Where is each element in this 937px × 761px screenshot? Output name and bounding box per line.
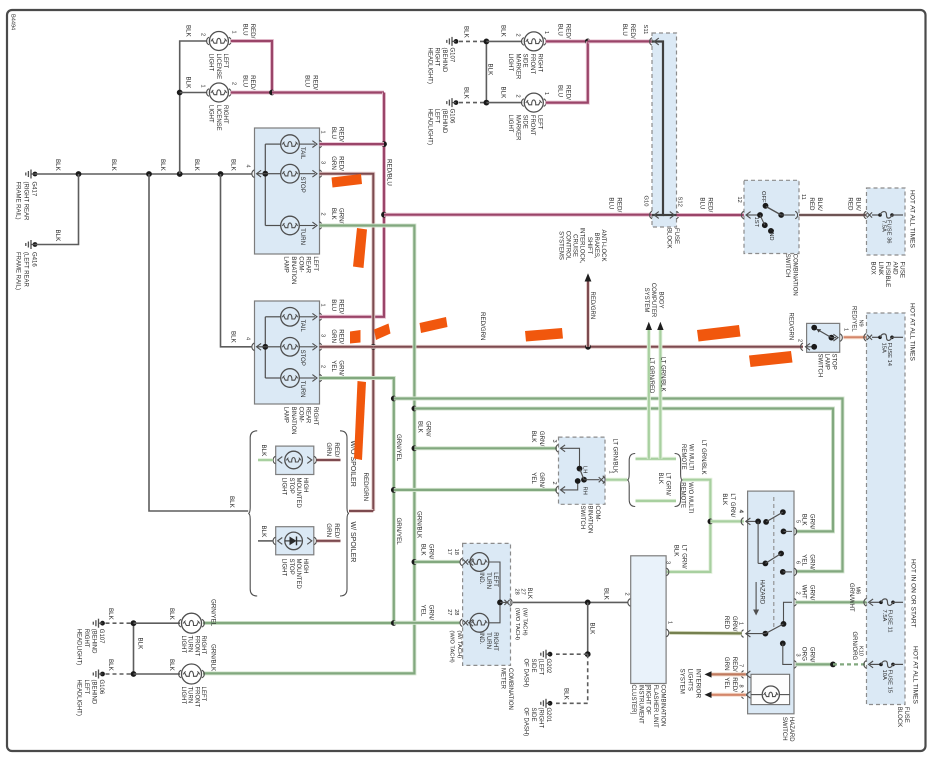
pin labels hazard left <box>738 510 744 688</box>
pin 2 connector hazard <box>794 592 801 607</box>
wire RED/GRN to interior lights <box>705 657 746 678</box>
svg-text:2: 2 <box>551 482 557 485</box>
pin 18/17 connector <box>446 549 473 566</box>
label body computer system <box>643 283 664 318</box>
label hot at all times (fuse15) <box>911 646 918 705</box>
connector pins high mount 2 <box>273 537 316 545</box>
svg-text:3: 3 <box>320 334 326 337</box>
svg-text:M6: M6 <box>855 587 861 595</box>
turn signal switch dashed box <box>559 437 606 504</box>
svg-text:BLK: BLK <box>463 26 470 39</box>
connector into fusible link box <box>864 211 872 219</box>
LED high mounted stop light <box>285 532 303 550</box>
fuse block internal bus <box>652 42 677 216</box>
svg-text:1: 1 <box>543 31 549 34</box>
turn switch contacts <box>575 466 600 495</box>
svg-text:1: 1 <box>320 131 326 134</box>
svg-text:BLK: BLK <box>185 25 192 38</box>
wire LT GRN lower alternate <box>636 499 677 503</box>
label lt grn/blk between braces <box>657 473 670 496</box>
svg-text:28: 28 <box>513 589 519 595</box>
pin 11 connector <box>795 194 806 219</box>
wire BLK meter to interior box <box>513 588 628 605</box>
svg-text:RED/GRN: RED/GRN <box>330 329 345 344</box>
svg-text:BLK: BLK <box>228 496 235 509</box>
svg-text:TAIL: TAIL <box>299 147 305 160</box>
svg-text:BLK: BLK <box>107 608 114 621</box>
pin 1 connector flasher <box>666 621 672 637</box>
svg-text:7.5A: 7.5A <box>880 220 886 232</box>
wire GRN/RED flasher to hazard <box>670 616 742 634</box>
svg-text:2: 2 <box>200 33 206 36</box>
hazard contact set A <box>755 509 792 534</box>
label turn combination switch <box>579 506 600 534</box>
svg-text:18: 18 <box>453 549 459 555</box>
high mounted stop light (w/o spoiler) box <box>276 446 314 474</box>
label left rear combination lamp <box>283 256 318 284</box>
highlight mark 7 <box>697 325 741 342</box>
connector into fuse 15 <box>864 661 873 669</box>
pin 28/27 connector <box>446 609 473 626</box>
combination flasher unit box <box>631 556 666 684</box>
bulb TURN (left rear) <box>265 216 317 245</box>
svg-text:2: 2 <box>624 593 630 596</box>
svg-text:2: 2 <box>515 95 521 98</box>
svg-text:HOT AT ALL TIMES: HOT AT ALL TIMES <box>908 190 915 249</box>
svg-text:RED/GRN: RED/GRN <box>788 313 794 341</box>
pin 2 connector (TURN) <box>320 208 345 229</box>
pin 1 connector (TAIL right) <box>320 299 345 320</box>
svg-text:N9: N9 <box>858 320 864 327</box>
highlight mark 8 <box>749 351 793 367</box>
svg-text:GRN/ORG: GRN/ORG <box>801 647 816 663</box>
label fuse and fusible link box <box>870 262 906 288</box>
svg-text:BLK: BLK <box>137 638 144 651</box>
node: bus junction dots <box>76 171 224 177</box>
hazard switch box <box>748 491 794 714</box>
brace } high mount alternates <box>340 431 349 596</box>
ground G107 (behind right headlight) <box>426 37 458 84</box>
svg-text:GRN/YEL: GRN/YEL <box>395 434 402 462</box>
hazard contact set B <box>758 521 792 574</box>
meter output connector <box>504 588 532 641</box>
svg-text:OFF: OFF <box>760 191 766 203</box>
label combination flasher unit <box>630 685 665 729</box>
svg-text:BLK: BLK <box>193 159 200 172</box>
pin 4 connector left rear lamp <box>245 165 266 178</box>
svg-text:11: 11 <box>800 194 806 200</box>
label high mounted stop light 2 <box>281 559 309 590</box>
wire stub left (w/o spoiler) <box>258 445 273 461</box>
pin 1 connector stop lamp switch <box>831 328 848 341</box>
wire BLK dashed to G202 <box>556 653 588 655</box>
pin 2 connector (TURN right) <box>320 360 345 382</box>
svg-text:BLK: BLK <box>54 230 61 243</box>
svg-text:RED/GRN: RED/GRN <box>362 473 369 502</box>
svg-text:(W/ TACH)(W/O TACH): (W/ TACH)(W/O TACH) <box>449 630 462 662</box>
wire RED/GRN stub (w/ spoiler) <box>317 523 341 541</box>
svg-text:GRN/BLK: GRN/BLK <box>210 644 217 672</box>
wire GRN/YEL from right rear turn <box>203 378 397 626</box>
svg-text:BLK: BLK <box>185 77 192 90</box>
svg-text:2: 2 <box>320 213 326 216</box>
pin 1 connector hazard <box>741 630 750 638</box>
svg-text:7.5A: 7.5A <box>881 610 887 622</box>
wire GRN/BLK meter stub <box>414 544 459 562</box>
wire LT GRN/BLK to hazard pin4 <box>665 440 744 572</box>
svg-text:LT GRN/BLK: LT GRN/BLK <box>612 439 618 473</box>
wire RED/BLU marker to fuse block S11 <box>588 24 652 42</box>
svg-text:RED/GRN: RED/GRN <box>325 523 340 538</box>
svg-text:LT GRN/BLK: LT GRN/BLK <box>660 357 666 391</box>
wire RED/BLU vertical main <box>320 93 393 317</box>
label hazard + arrow <box>753 580 764 616</box>
svg-text:2: 2 <box>795 592 801 595</box>
svg-text:B4494: B4494 <box>10 14 16 30</box>
svg-text:HOT IN ON OR START: HOT IN ON OR START <box>909 559 916 628</box>
wire RED/GRN long to stop lamp switch <box>373 312 803 350</box>
svg-text:ANTI-LOCKBRAKES,SHIFTINTERLOCK: ANTI-LOCKBRAKES,SHIFTINTERLOCK,CRUISECON… <box>557 227 606 263</box>
svg-text:RED/GRN: RED/GRN <box>723 657 738 672</box>
wire BLK dashed to G107 <box>459 26 486 41</box>
wire GRN/WHT to fuse 11 <box>796 583 867 612</box>
lamp: left license light <box>200 24 257 80</box>
svg-text:RED/GRN: RED/GRN <box>589 292 595 320</box>
svg-text:BLK: BLK <box>159 159 166 172</box>
wire BLK right license <box>180 92 208 94</box>
fuse block (rear) dashed box <box>652 33 677 227</box>
wire GRN/BLK to hazard pin5 <box>414 409 833 532</box>
svg-text:28: 28 <box>453 609 459 615</box>
pin 5 connector hazard <box>794 520 801 535</box>
label anti-lock brakes shift interlock cruise control systems <box>557 227 606 263</box>
svg-text:1: 1 <box>543 92 549 95</box>
wire RED/BLU license loop <box>231 41 275 95</box>
svg-text:K10: K10 <box>858 646 864 656</box>
label grn/yel pin6 <box>801 554 816 570</box>
svg-text:BLK: BLK <box>500 25 507 38</box>
label w/ spoiler <box>349 522 356 563</box>
ground G106 (behind left headlight) <box>426 98 458 145</box>
pin 3 connector (turn sw) <box>556 445 580 469</box>
high mounted stop light (w/ spoiler) box <box>276 527 314 555</box>
pin 2 connector stop lamp switch <box>788 313 818 351</box>
wire BLK to G416 <box>35 174 79 245</box>
highlight mark 9 <box>354 381 366 460</box>
wire GRN/BLK to combination switch pin3 <box>414 431 557 449</box>
wire LT GRN/RED to body computer <box>646 322 654 459</box>
wire BLK down to grounds <box>585 602 596 657</box>
label grn/blk vertical <box>416 421 432 539</box>
pin 12 connector <box>736 197 760 219</box>
svg-text:1: 1 <box>200 85 206 88</box>
stop lamp switch box <box>807 323 840 352</box>
internal bus left rear lamp <box>262 144 268 225</box>
svg-text:BLK/RED: BLK/RED <box>847 197 862 211</box>
wire LT GRN upper alternate <box>636 457 677 461</box>
wire BLK marker stubs <box>486 25 522 103</box>
lamp: right license light <box>200 75 257 131</box>
svg-text:3: 3 <box>320 161 326 164</box>
svg-text:12: 12 <box>736 197 742 203</box>
instrument panel fuse block dashed box <box>867 313 906 705</box>
bulb high mounted stop light <box>285 451 303 469</box>
svg-text:W/ SPOILER: W/ SPOILER <box>349 522 356 563</box>
brace } alternates <box>675 454 683 507</box>
svg-text:10A: 10A <box>881 670 887 680</box>
wire LT GRN from pin1 <box>606 439 627 480</box>
wire GRN/ORG to fuse 15 <box>796 632 867 668</box>
svg-text:RED/YEL: RED/YEL <box>851 306 857 332</box>
label interior lights system <box>679 669 702 699</box>
fuse & fusible link box dashed <box>867 188 906 255</box>
brace { alternates <box>627 454 635 507</box>
hazard illumination bulb <box>751 674 790 704</box>
connector S11 <box>642 25 659 46</box>
connector S12 <box>670 197 683 219</box>
hazard contact set D <box>780 641 792 665</box>
svg-text:S11: S11 <box>642 25 648 35</box>
svg-text:BLK/RED: BLK/RED <box>808 197 823 211</box>
wire BLK dashed to G106 <box>459 87 486 103</box>
wire RED/GRN brace to stop vertical <box>349 509 373 513</box>
pin 6 connector hazard <box>794 561 801 576</box>
svg-text:BLK: BLK <box>260 445 267 458</box>
ground G107 lower (behind right headlight) <box>76 619 105 665</box>
svg-text:BLK: BLK <box>107 659 114 672</box>
lamp: right front side marker light <box>507 24 572 80</box>
connector pins high mount 1 <box>273 456 316 464</box>
svg-text:BLK: BLK <box>230 159 237 172</box>
wire BLK front turn stubs <box>134 608 181 674</box>
label combination meter <box>500 668 513 710</box>
svg-text:RED/GRN: RED/GRN <box>325 442 340 457</box>
svg-text:BLK: BLK <box>54 159 61 172</box>
pin 8 connector hazard <box>741 691 750 699</box>
svg-text:1ST: 1ST <box>753 217 759 228</box>
svg-text:5: 5 <box>795 520 801 523</box>
wire RED/BLU marker loop <box>546 39 591 103</box>
svg-text:BLK: BLK <box>110 159 117 172</box>
hazard contact set C <box>746 602 792 636</box>
svg-text:TAIL: TAIL <box>299 320 305 333</box>
svg-text:RED/GRN: RED/GRN <box>330 156 345 171</box>
svg-text:LH: LH <box>582 466 588 473</box>
svg-text:G10: G10 <box>643 196 649 207</box>
svg-text:HAZARD: HAZARD <box>758 580 764 605</box>
wire RED/BLU tail stub left lamp <box>320 142 385 146</box>
wire RED/YEL to fuse 14 <box>844 306 867 337</box>
fuse 11 <box>870 599 903 633</box>
svg-text:BLK: BLK <box>589 623 596 636</box>
wire GRN/BLK from left rear turn <box>203 226 417 674</box>
wire RED/BLU to tail vertical <box>272 75 384 92</box>
brace { high mount alternates <box>248 431 257 596</box>
wire BLK/RED to fusible link box <box>799 197 867 215</box>
wire BLK dashed to G107 lower <box>106 608 134 623</box>
wire RED/YEL to interior lights <box>705 677 746 698</box>
bulb right turn indicator <box>470 613 498 651</box>
hazard internal dashed divider <box>773 497 775 628</box>
ground G202 (left side of dash) <box>523 650 553 687</box>
bulb TAIL (left rear) <box>265 135 317 160</box>
svg-text:GRN/BLK: GRN/BLK <box>416 511 423 539</box>
label w/o multi remote <box>680 482 693 514</box>
pin 7 connector hazard <box>741 671 750 679</box>
wire BLK to right rear lamp pin 4 <box>221 174 253 347</box>
bulb left turn indicator <box>470 553 498 589</box>
svg-text:RH: RH <box>582 487 588 495</box>
svg-text:GRN/YEL: GRN/YEL <box>210 599 217 627</box>
bulb TAIL (right rear) <box>265 308 317 333</box>
combination meter dashed box <box>463 543 511 665</box>
svg-text:6: 6 <box>795 561 801 564</box>
svg-text:27: 27 <box>446 609 452 615</box>
wire GRN/YEL to hazard pin6 <box>394 399 843 572</box>
svg-text:HOT AT ALL TIMES: HOT AT ALL TIMES <box>908 303 915 362</box>
pin 3 connector (STOP right) <box>320 329 345 350</box>
pin 2 connector flasher <box>624 593 631 607</box>
ground G201 (right side of dash) <box>523 699 553 736</box>
svg-text:(W/ TACH)(W/O TACH): (W/ TACH)(W/O TACH) <box>514 608 527 640</box>
svg-text:HOT AT ALL TIMES: HOT AT ALL TIMES <box>911 646 918 705</box>
lamp: left front turn light <box>179 644 217 707</box>
svg-text:2: 2 <box>515 34 521 37</box>
wire BLK markers link <box>484 39 494 106</box>
lamp assembly: right rear combination lamp box <box>255 301 320 404</box>
highlight mark 3 <box>350 330 361 344</box>
meter internal wires <box>489 562 509 623</box>
ground G106 lower (behind left headlight) <box>76 670 105 716</box>
pin 3 connector hazard <box>794 654 801 669</box>
wire BLK dashed to G201 <box>556 654 588 703</box>
highlight mark 2 <box>353 228 367 268</box>
svg-text:GRN/WHT: GRN/WHT <box>848 583 854 612</box>
highlight mark 4 <box>374 324 391 341</box>
wire RED/GRN stop stub right lamp <box>320 345 374 349</box>
wire RED/GRN stop vertical <box>320 174 377 511</box>
label w/tach w/o tach left <box>449 630 462 662</box>
svg-text:BLK: BLK <box>463 87 470 100</box>
arrow to anti-lock systems <box>585 273 595 347</box>
label hot at all times (fuse36) <box>908 190 915 249</box>
svg-text:GRN/YEL: GRN/YEL <box>395 518 402 546</box>
bulb TURN (right rear) <box>265 369 317 398</box>
wire GRN/YEL meter stub <box>394 605 460 623</box>
pin 1 connector (turn sw) <box>599 471 614 484</box>
wire BLK rear ground bus <box>35 159 252 174</box>
stop lamp switch contacts <box>811 325 834 341</box>
label fuse block (instrument panel) <box>896 707 909 727</box>
bulb STOP (left rear) <box>265 164 317 192</box>
wire BLK long drop to high-mount brace <box>149 174 248 511</box>
wire RED/GRN stub (w/o spoiler) <box>317 442 341 460</box>
svg-text:RED/GRN: RED/GRN <box>479 312 486 341</box>
svg-text:STOP: STOP <box>299 177 305 193</box>
svg-text:1: 1 <box>667 621 673 624</box>
combination switch dashed box <box>744 180 799 253</box>
label hot at all times (fuse14) <box>908 303 915 362</box>
lamp: left front side marker light <box>507 85 572 141</box>
svg-text:W/ MULTIREMOTE: W/ MULTIREMOTE <box>680 444 693 471</box>
svg-text:15A: 15A <box>881 343 887 353</box>
svg-text:17: 17 <box>446 549 452 555</box>
svg-text:LT GRN/BLK: LT GRN/BLK <box>700 440 706 474</box>
fuse 14 <box>872 334 903 367</box>
connector G10 <box>643 196 659 219</box>
svg-text:BLK: BLK <box>500 87 507 100</box>
wire RED/BLU S12 to combination switch <box>677 197 744 215</box>
bulb STOP (right rear) <box>265 338 317 366</box>
pin 2 connector (turn sw) <box>556 481 578 494</box>
svg-text:1: 1 <box>231 31 237 34</box>
svg-text:BLK: BLK <box>526 588 532 599</box>
svg-text:3: 3 <box>795 654 801 657</box>
internal bus right rear lamp <box>262 317 268 378</box>
svg-text:BLK: BLK <box>230 331 237 344</box>
wire BLK front turn link <box>131 620 144 677</box>
svg-text:GRN/ORG: GRN/ORG <box>851 632 857 661</box>
svg-text:STOP: STOP <box>299 350 305 366</box>
fuse 36 <box>872 212 903 244</box>
label w/o spoiler <box>349 441 356 487</box>
wire RED/BLU to fuse block <box>384 197 652 214</box>
label w/ multi remote <box>680 444 693 471</box>
svg-text:3: 3 <box>551 440 557 443</box>
ground G417 (right rear frame rail) <box>15 170 38 222</box>
svg-text:2: 2 <box>231 82 237 85</box>
svg-text:1: 1 <box>320 304 326 307</box>
switch contacts OFF/1ST/2ND <box>753 191 795 241</box>
svg-text:BLK: BLK <box>168 608 175 621</box>
pin 3 connector flasher <box>666 568 668 576</box>
svg-text:2ND: 2ND <box>768 229 774 241</box>
svg-text:HAZARDSWITCH: HAZARDSWITCH <box>781 717 794 742</box>
highlight mark 6 <box>525 328 563 342</box>
svg-text:GRN/WHT: GRN/WHT <box>801 585 816 601</box>
svg-text:LT GRN/RED: LT GRN/RED <box>648 358 654 394</box>
ground G416 (left rear frame rail) <box>15 240 38 290</box>
wire BLK dashed to G106 lower <box>106 659 134 674</box>
wire LT GRN/BLK to body computer <box>657 322 665 459</box>
svg-text:BLK: BLK <box>260 526 267 539</box>
svg-text:BLK: BLK <box>487 64 494 77</box>
label right rear combination lamp <box>283 407 318 435</box>
connector into fuse 11 <box>864 599 873 607</box>
label combination switch <box>784 254 797 296</box>
svg-text:TURN: TURN <box>299 381 305 398</box>
svg-text:S12: S12 <box>677 197 683 207</box>
svg-text:27: 27 <box>520 589 526 595</box>
wire BLK stub (w/ spoiler) <box>258 526 273 541</box>
highlight mark 1 <box>332 174 363 188</box>
connector into fuse 14 <box>864 334 872 342</box>
svg-text:RED/BLU: RED/BLU <box>386 159 393 186</box>
svg-text:BLK: BLK <box>603 588 610 601</box>
pin 4 connector hazard <box>741 518 758 526</box>
wire BLK license lights drop <box>177 25 207 174</box>
label hot in on or start <box>909 559 916 628</box>
lamp assembly: left rear combination lamp box <box>255 128 320 254</box>
svg-text:BLK: BLK <box>563 688 570 701</box>
pin 3 connector (STOP) <box>320 156 345 177</box>
label high mounted stop light 1 <box>281 478 309 509</box>
svg-text:4: 4 <box>245 337 251 340</box>
label fuse block <box>666 228 679 248</box>
svg-text:TURN: TURN <box>299 228 305 245</box>
svg-text:1: 1 <box>843 328 849 331</box>
lamp: right front turn light <box>179 599 217 656</box>
